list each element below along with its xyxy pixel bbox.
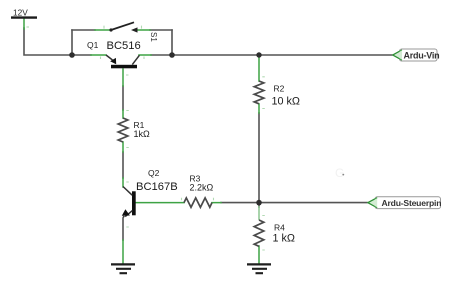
svg-text:2.2kΩ: 2.2kΩ xyxy=(190,183,214,193)
svg-text:R4: R4 xyxy=(274,223,285,233)
svg-text:R2: R2 xyxy=(274,84,285,94)
svg-text:G: G xyxy=(335,166,344,180)
svg-text:S1: S1 xyxy=(149,32,158,42)
svg-text:10 kΩ: 10 kΩ xyxy=(272,95,300,107)
svg-text:BC516: BC516 xyxy=(107,40,141,52)
svg-text:Ardu-Steuerpin: Ardu-Steuerpin xyxy=(382,198,442,208)
svg-text:1 kΩ: 1 kΩ xyxy=(273,232,295,244)
svg-text:12V: 12V xyxy=(13,7,28,17)
svg-text:Q2: Q2 xyxy=(148,168,160,178)
svg-text:Q1: Q1 xyxy=(87,40,99,50)
svg-text:BC167B: BC167B xyxy=(136,181,178,193)
svg-text:Ardu-Vin: Ardu-Vin xyxy=(404,50,440,60)
svg-text:1kΩ: 1kΩ xyxy=(134,129,151,139)
